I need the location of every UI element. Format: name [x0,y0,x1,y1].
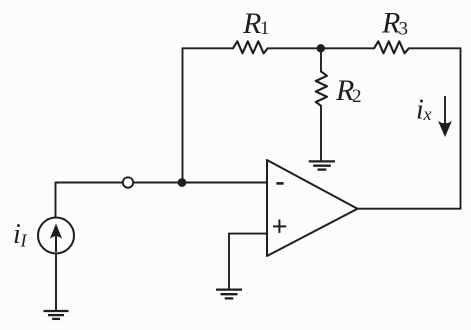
svg-text:2: 2 [352,86,362,107]
wire right vertical [460,48,462,208]
svg-text:I: I [20,231,28,251]
wire between R1 and node B [268,47,321,49]
op-amp minus sign [276,182,283,185]
wire top-left vertical (node A up to R1) [182,48,184,182]
label ix [416,95,432,126]
wire node B down to R2 [320,48,322,71]
ground (R2) [309,161,335,169]
current arrow ix [438,96,452,137]
svg-text:R: R [381,7,400,40]
wire R3 to top-right corner [409,47,461,49]
ground (current source) [44,311,69,319]
wire op-amp output [358,208,461,210]
node open circle terminal [123,177,133,187]
node B junction dot [317,44,325,52]
svg-text:1: 1 [260,18,270,39]
svg-text:3: 3 [399,18,409,39]
wire noninverting input down to ground [228,234,230,289]
label R3 [381,7,408,40]
op-amp U1 [267,160,358,256]
svg-text:x: x [423,104,432,124]
label R1 [242,7,270,40]
current source I1 [38,218,74,254]
resistor R2 [316,72,327,106]
svg-text:R: R [242,7,261,40]
resistor R1 [233,41,268,53]
resistor R3 [374,41,409,53]
wire current source top [55,183,57,218]
wire R2 to ground [320,106,322,161]
label iI [13,219,28,251]
ground (noninverting input) [216,290,242,299]
wire between node B and R3 [321,47,374,49]
node A junction dot [178,178,187,187]
wire top left segment [183,47,234,49]
wire noninverting input horizontal [229,233,267,235]
wire current source bottom to ground [55,254,57,311]
op-amp plus sign [273,220,286,233]
wire left horizontal (current source to inverting input) [56,182,268,184]
label R2 [335,74,362,107]
